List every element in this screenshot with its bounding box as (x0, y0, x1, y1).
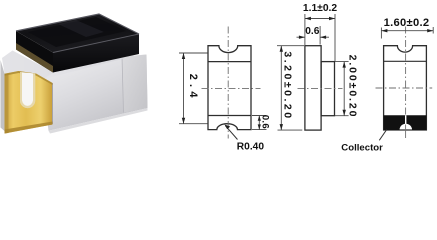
side view tall rect (305, 46, 321, 130)
dim 2.4 extension lines (179, 53, 208, 124)
black epoxy block: left end face (16, 31, 53, 73)
end view vertical centerline (405, 27, 407, 116)
body left side sliver (1, 60, 5, 131)
shadow under body (49, 108, 148, 134)
Collector leader (379, 130, 386, 141)
end view outline with notch (384, 46, 427, 130)
front view vertical centerline (227, 27, 229, 139)
dim 3.20 dimension line (280, 46, 282, 130)
dim 0.6 front dimension line (258, 116, 260, 130)
svg-text:0.6: 0.6 (305, 26, 319, 37)
white centerline gap in black band (405, 115, 407, 124)
black block top face (16, 14, 139, 53)
svg-text:Collector: Collector (341, 143, 383, 154)
front view outline with notches (208, 46, 251, 130)
dim 2.00 dimension line (343, 62, 345, 116)
svg-text:3.20±0.20: 3.20±0.20 (281, 51, 293, 120)
end view band line (384, 60, 427, 62)
white channel in gold (20, 72, 35, 108)
dim 1.1 extension lines (305, 14, 335, 61)
dim 1.1 dimension line (305, 18, 335, 20)
end view horizontal centerline (376, 87, 433, 89)
gold terminal (5, 71, 53, 134)
body right end face (122, 55, 148, 113)
body top face strip (2, 51, 123, 80)
dim 0.6 middle extension line right (319, 26, 321, 45)
svg-text:2.00±0.20: 2.00±0.20 (347, 55, 359, 119)
front view bottom band line (208, 115, 251, 117)
dim 0.6 middle dimension line with outside arrows (297, 36, 330, 38)
front view top band line (208, 61, 251, 63)
svg-text:2.4: 2.4 (187, 74, 199, 102)
dim 3.20 extension lines (277, 46, 304, 130)
black block front face (53, 34, 139, 73)
dim 0.6 front extension lines (252, 116, 267, 130)
gold reflection on left face bottom (16, 43, 53, 73)
side view horizontal centerline (298, 88, 343, 90)
svg-text:0.6: 0.6 (260, 115, 271, 129)
body front face (42, 55, 148, 131)
dim 2.00 extension lines (335, 62, 349, 116)
R0.40 leader (225, 126, 237, 140)
svg-text:1.1±0.2: 1.1±0.2 (303, 3, 338, 14)
front view horizontal centerline (202, 88, 261, 90)
svg-text:1.60±0.2: 1.60±0.2 (384, 17, 430, 29)
dim 1.60 dimension line (381, 30, 433, 32)
gold shading edges (5, 74, 9, 134)
dim 2.4 dimension line (183, 53, 185, 124)
side view protrusion (321, 62, 334, 116)
dim 1.60 extension stubs (381, 27, 433, 39)
svg-text:R0.40: R0.40 (237, 142, 265, 153)
black collector band (384, 115, 427, 130)
